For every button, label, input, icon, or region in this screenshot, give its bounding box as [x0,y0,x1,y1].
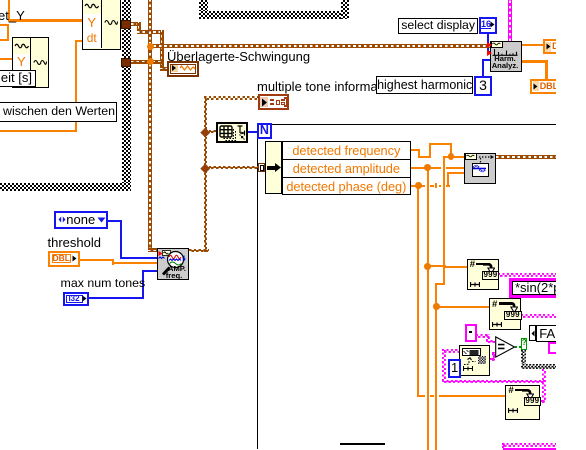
while loop bottom border (checkered) [0,183,131,191]
free label multiple tone information [257,80,399,93]
pink wire from icon B to right [521,314,556,317]
node1 Build Waveform [82,0,121,50]
node2 Build Waveform [12,37,50,88]
case structure left border (checkered) [521,338,526,369]
icon C (#999) [505,385,540,420]
top structure left border (checkered) [199,0,208,19]
unbundle by name node: cream column [265,141,281,195]
zigzag branch to unbundle tunnel [204,166,259,170]
zigzag wire: AMP output up to cluster indicator [189,249,209,253]
icon B (#999) [489,298,521,330]
case label FALSE box (cut) [536,325,569,342]
wire orange et_Y horizontal to node1 Y [8,19,83,22]
wire orange et_Y vertical [8,0,11,22]
terminal 16 [479,17,498,34]
N terminal of for loop [257,123,273,139]
unbundle black arrow [267,166,275,170]
wire orange dt net: vertical behind label [75,40,77,131]
wire 3 to Harm (blue) [482,59,484,76]
waveform wire: VI2 output [496,155,557,159]
waveform wire: main vertical to AMP [148,0,152,250]
pink box inside case (cut) [548,342,558,354]
for loop top border [257,124,557,125]
waveform wire: main horizontal to Harm [148,44,490,48]
label et_Y [0,9,25,22]
pink label top edge bottom [503,448,556,450]
cluster array indicator multiple tone information [258,94,290,109]
magenta wire into Harm top [508,0,512,41]
control DBL threshold [48,251,80,267]
equals comparator [495,336,516,358]
unbundle row1 wire staircase to VI2 [411,149,420,151]
Harm Analyz VI icon [490,41,522,73]
enum constant none [54,211,108,230]
unbundle row detected frequency [282,141,411,160]
Harm VI input arrows (red) [487,42,492,48]
unbundle row detected phase (deg) [282,177,411,195]
while loop right border (checkered) [122,0,131,191]
case label arrow box [529,325,536,340]
wire orange into node2 Y [0,58,13,60]
wire orange dt net: left horizontal [0,130,77,132]
icon A (#999) [467,259,499,291]
label box eit [s] [0,70,36,87]
tunnel 1 on while loop border [121,20,131,29]
waveform indicator Uberlagerte-Schwingung [167,61,200,77]
white mask right clip [556,0,586,450]
wire crossing breaks (vertical passes, horizontal broken) [425,184,430,187]
constant 3 [474,76,492,96]
unbundle row detected amplitude [282,159,411,178]
free label max num tones [61,277,146,290]
top structure right border (checkered) [341,0,349,19]
pink wire icon D output to equals [490,358,495,361]
string constant *sin(2* (cut) [509,278,569,298]
pink wire from icon A to right [498,273,556,276]
case selector ? terminal [521,338,528,350]
tunnel 2 on while loop border [121,58,131,67]
grid icon (array size) [216,122,248,143]
label box select display [398,18,479,33]
wire grid icon to N (blue) [247,131,258,133]
label box highest harmonic [376,76,474,93]
zigzag branch to grid icon [204,130,217,134]
AMP freq VI icon [157,248,189,280]
waveform wire: tunnel2 horizontal [131,60,163,64]
wire none enum to AMP (blue) [108,220,123,222]
wire threshold DBL to AMP [80,259,114,261]
indicator DBL array [530,79,559,94]
wire orange dt net: into node1 dt [75,40,83,42]
control I32 max num tones [63,292,89,306]
green dotted wire = to ? [515,346,522,348]
auto-index tunnel [] [258,163,265,172]
case structure bottom border (checkered) [521,364,562,369]
waveform junction dots [147,43,154,50]
indicator D (cut) [543,39,569,54]
pink wire bottom [502,443,505,448]
row3 wire to VI2 and down to icon C [411,185,450,187]
constant 1 [448,359,461,379]
row2 wire to VI2 and down to icon A [411,167,465,169]
orange constant box cut at left edge [0,24,9,41]
label box wischen den Werten [0,102,117,122]
pink wire icon D input net [442,349,459,352]
bottom label top edge line [340,443,385,445]
row1 branch down to icon B [443,156,452,158]
free label Uberlagerte-Schwingung [167,50,310,63]
VI2 waveform buffer icon [464,153,496,185]
waveform wire: into AMP [148,248,159,252]
icon D (array subset) [459,345,491,376]
Harm output2 to DBL indicator (orange thick) [522,60,548,63]
minus pink box [465,324,477,342]
top structure bottom border (checkered) [199,11,349,19]
waveform wire: tunnel1 step [131,22,141,26]
wire I32 max num tones to AMP (blue) [88,297,144,299]
orange junction dots on row wires [448,153,455,160]
zigzag junction diamonds [201,127,210,136]
free label threshold [48,236,101,249]
Harm output1 to D indicator (orange) [522,44,543,46]
wire 16 to Harm (blue) [487,34,489,54]
for loop left border [257,124,258,450]
pink wire minus box to equals [476,334,489,337]
